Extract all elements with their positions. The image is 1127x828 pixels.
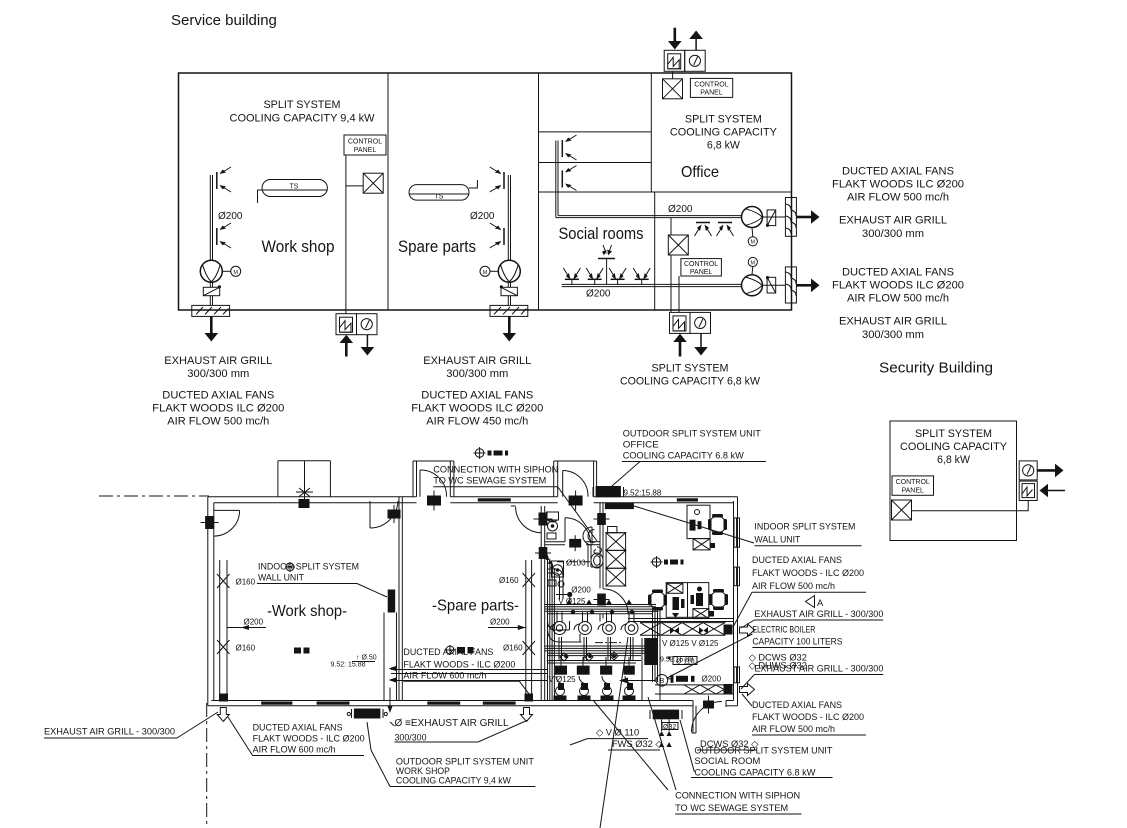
fan F1 workshop <box>200 260 240 282</box>
wire CP1 to outdoor unit <box>345 155 347 314</box>
svg-text:AIR FLOW 500 mc/h: AIR FLOW 500 mc/h <box>847 192 949 204</box>
desk1 office <box>687 505 710 538</box>
svg-text:300/300 mm: 300/300 mm <box>862 228 924 240</box>
desk2 office <box>666 583 687 618</box>
outlet V1 top <box>217 167 231 192</box>
svg-text:Ø200: Ø200 <box>702 675 722 684</box>
outlet V2 top <box>490 167 504 192</box>
duct X-braced upper <box>640 623 726 636</box>
WC upper fixtures <box>547 512 559 539</box>
label ducted fans spare mid <box>403 647 529 694</box>
svg-text:V Ø125: V Ø125 <box>549 675 577 684</box>
valve X duct spare b <box>523 641 536 655</box>
svg-text:Ø32: Ø32 <box>663 724 676 731</box>
pipe bundle B horizontal <box>545 646 648 656</box>
desk3 xbox <box>693 609 714 619</box>
svg-text:M: M <box>751 260 756 266</box>
indoor unit X4 security <box>892 500 912 520</box>
wall office left <box>650 73 652 192</box>
valve bowtie b <box>699 627 708 634</box>
shower stems <box>561 657 629 666</box>
hollow arrow workshop grill <box>217 708 229 722</box>
arrow out security <box>1037 464 1063 478</box>
triangles drain <box>659 719 672 747</box>
valve X duct spare a <box>523 573 536 587</box>
svg-text:Spare parts: Spare parts <box>398 237 476 256</box>
svg-text:Ø200: Ø200 <box>218 211 243 222</box>
refrigerant lines workshop <box>384 613 548 714</box>
wall social/office bottom <box>539 191 792 193</box>
svg-text:DUCTED AXIAL FANS: DUCTED AXIAL FANS <box>253 722 343 733</box>
svg-text:TS: TS <box>290 184 299 191</box>
svg-text:FLAKT WOODS ILC Ø200: FLAKT WOODS ILC Ø200 <box>832 179 964 191</box>
label ducted fans right plan 1 <box>733 555 866 627</box>
svg-text:EXHAUST AIR GRILL - 300/300: EXHAUST AIR GRILL - 300/300 <box>754 663 883 674</box>
svg-text:-Spare parts-: -Spare parts- <box>432 598 519 615</box>
wire X2 up to outdoor unit <box>672 72 674 79</box>
svg-text:TS: TS <box>435 194 444 201</box>
wall WC cubicle horizontal <box>591 566 600 568</box>
control panel CP4 <box>892 476 934 495</box>
svg-text:TO WC SEWAGE SYSTEM: TO WC SEWAGE SYSTEM <box>433 476 546 487</box>
diffuser H1 b <box>717 223 734 237</box>
outdoor unit OU1 office top <box>664 50 705 71</box>
arrow into OU3 <box>673 334 687 357</box>
duct V3 social <box>556 141 558 218</box>
svg-text:SOCIAL ROOM: SOCIAL ROOM <box>694 756 760 767</box>
vestibule office top <box>554 461 597 497</box>
svg-text:FLAKT WOODS - ILC Ø200: FLAKT WOODS - ILC Ø200 <box>752 568 864 579</box>
svg-text:-Work shop-: -Work shop- <box>267 603 347 620</box>
arrow into security <box>1040 484 1066 498</box>
svg-text:DUCTED AXIAL FANS: DUCTED AXIAL FANS <box>403 647 493 658</box>
svg-text:WALL UNIT: WALL UNIT <box>258 573 304 584</box>
arrow out of OU3 <box>694 333 708 355</box>
duct line through fan F4 <box>763 284 786 286</box>
valve X duct left a <box>217 574 230 588</box>
window right wall 2 <box>734 567 740 586</box>
washbasin WC <box>591 553 603 568</box>
svg-text:FLAKT WOODS - ILC Ø200: FLAKT WOODS - ILC Ø200 <box>403 659 515 670</box>
d200 label WC <box>556 585 591 604</box>
washbasin row <box>554 683 636 701</box>
arrow AR3 out right <box>796 210 819 224</box>
wall divider spare/mech <box>540 506 542 701</box>
door handle office bottom left <box>594 594 610 606</box>
svg-text:PANEL: PANEL <box>690 269 713 276</box>
wall WC cubicle vertical <box>587 545 589 567</box>
wall office left <box>599 503 601 589</box>
riser pipes left <box>546 554 555 700</box>
hollow arrow lower right <box>740 684 755 696</box>
svg-text:Social rooms: Social rooms <box>559 224 644 243</box>
svg-text:EXHAUST AIR GRILL - 300/300: EXHAUST AIR GRILL - 300/300 <box>44 727 175 738</box>
door arc workshop top-right <box>370 501 398 528</box>
svg-text:B: B <box>660 678 665 685</box>
arrow below G2 <box>503 316 517 341</box>
label outdoor social <box>680 720 833 778</box>
hollow arrow upper right <box>740 624 755 636</box>
svg-text:CONNECTION WITH SIPHON: CONNECTION WITH SIPHON <box>433 465 558 476</box>
svg-text:9.52:15.88: 9.52:15.88 <box>624 488 662 497</box>
door handle social exit <box>703 696 714 714</box>
curved pipe connectors WC <box>583 527 595 545</box>
exhaust grill GR3 <box>785 198 796 237</box>
door handle WC wall <box>569 535 581 551</box>
door handle spare top <box>427 491 441 511</box>
svg-text:AIR FLOW 500 mc/h: AIR FLOW 500 mc/h <box>167 416 269 428</box>
wall small room divider 1 <box>539 131 652 133</box>
svg-text:COOLING CAPACITY 6.8 kW: COOLING CAPACITY 6.8 kW <box>623 451 744 462</box>
damper D4 <box>766 276 776 293</box>
svg-text:DUCTED AXIAL FANS: DUCTED AXIAL FANS <box>752 555 842 566</box>
door arc spare/mech corner <box>516 507 542 533</box>
svg-text:CONNECTION WITH SIPHON: CONNECTION WITH SIPHON <box>675 790 800 801</box>
outlet V1 bottom <box>217 223 231 248</box>
wire CP3 down <box>678 276 680 312</box>
svg-text:DUCTED AXIAL FANS: DUCTED AXIAL FANS <box>162 390 274 402</box>
label connection siphon top <box>433 465 597 542</box>
plan top wall <box>208 496 417 498</box>
fan F3 <box>742 207 763 246</box>
door arc office vestibule <box>563 471 588 497</box>
svg-text:FLAKT WOODS - ILC Ø200: FLAKT WOODS - ILC Ø200 <box>752 712 864 723</box>
outlet V3 top <box>562 135 576 160</box>
damper D2 <box>500 282 518 305</box>
marker bars spare <box>445 645 474 655</box>
svg-text:DUCTED AXIAL FANS: DUCTED AXIAL FANS <box>421 390 533 402</box>
outdoor unit security fan box <box>1019 461 1037 480</box>
plan left wall <box>207 497 209 706</box>
svg-text:EXHAUST AIR GRILL: EXHAUST AIR GRILL <box>839 215 947 227</box>
control panel CP2 <box>690 78 732 97</box>
leader to indoor label <box>634 506 754 543</box>
window right wall 1 <box>734 518 740 547</box>
arrow into OU2 <box>340 335 354 357</box>
svg-text:PANEL: PANEL <box>354 147 377 154</box>
TS capsule spare parts <box>409 180 477 201</box>
shower row black <box>555 666 635 675</box>
svg-text:CONTROL: CONTROL <box>348 139 382 146</box>
svg-text:Ø 110: Ø 110 <box>676 658 695 665</box>
svg-text:V Ø125 V Ø125: V Ø125 V Ø125 <box>662 639 719 648</box>
control panel CP3 <box>681 259 722 276</box>
damper D1 <box>203 282 221 305</box>
outlet V3 bottom <box>562 166 576 191</box>
duct V1 workshop <box>210 175 212 261</box>
door arc office interior <box>603 589 628 614</box>
svg-text:SPLIT SYSTEM: SPLIT SYSTEM <box>915 428 992 440</box>
window bottom wall w1 <box>261 702 292 705</box>
grill black upper right <box>724 625 733 635</box>
d110 boxed <box>667 656 698 665</box>
outdoor unit workshop black <box>347 709 387 719</box>
svg-text:COOLING CAPACITY 6.8 kW: COOLING CAPACITY 6.8 kW <box>694 767 815 778</box>
outdoor unit OU3 social bottom <box>670 312 711 333</box>
label fws <box>608 739 663 750</box>
svg-text:M: M <box>233 270 238 276</box>
svg-text:DUCTED AXIAL FANS: DUCTED AXIAL FANS <box>752 700 842 711</box>
svg-text:ELECTRIC BOILER: ELECTRIC BOILER <box>752 624 815 635</box>
grill black lower right <box>724 684 733 695</box>
chair1 office <box>708 514 727 535</box>
desk3 office <box>688 583 709 618</box>
arrow AR4 out right <box>796 279 819 293</box>
svg-text:INDOOR SPLIT SYSTEM: INDOOR SPLIT SYSTEM <box>258 562 359 573</box>
svg-text:CONTROL: CONTROL <box>896 479 930 486</box>
grill square spare bottom <box>525 694 534 702</box>
grill square workshop bottom <box>219 694 228 702</box>
svg-text:EXHAUST AIR GRILL: EXHAUST AIR GRILL <box>164 355 272 367</box>
desk1 xbox <box>693 539 715 550</box>
door arc workshop top-left <box>214 509 240 511</box>
wire duct to X3 <box>670 218 672 235</box>
svg-text:Ø200: Ø200 <box>244 618 264 627</box>
TS capsule workshop <box>258 180 328 204</box>
wire X3 down <box>670 255 672 312</box>
duct H1 social upper <box>556 216 742 218</box>
indoor unit X2 office <box>663 79 683 99</box>
d100 dashed leader <box>557 558 591 567</box>
label d200 workshop <box>227 618 266 631</box>
duct workshop left <box>220 560 227 697</box>
toilets row <box>553 618 566 635</box>
door arc spare vestibule <box>420 470 447 497</box>
arrow into OU1 <box>668 28 682 50</box>
svg-text:COOLING CAPACITY: COOLING CAPACITY <box>900 441 1008 453</box>
svg-text:Ø160: Ø160 <box>236 644 256 653</box>
svg-text:M: M <box>751 240 756 246</box>
svg-text:M: M <box>483 270 488 276</box>
center diffuser H2 <box>598 245 615 284</box>
centerline vertical <box>206 703 208 828</box>
ceiling marker office <box>651 556 684 568</box>
outlet V2 bottom <box>490 223 504 248</box>
svg-text:Ø200: Ø200 <box>586 289 611 300</box>
svg-text:OUTDOOR SPLIT SYSTEM UNIT: OUTDOOR SPLIT SYSTEM UNIT <box>623 429 761 440</box>
window bottom wall w2 <box>317 702 350 705</box>
indoor unit X3 social <box>668 235 688 255</box>
door handle office top <box>569 491 583 511</box>
building outline top schematic <box>179 73 792 310</box>
wall WC divider horizontal <box>545 541 565 543</box>
window W1 top wall <box>478 498 511 501</box>
exhaust grill GR4 <box>785 267 796 303</box>
pipe bundle A horizontal <box>545 605 659 614</box>
svg-text:AIR FLOW 450 mc/h: AIR FLOW 450 mc/h <box>426 416 528 428</box>
svg-text:FLAKT WOODS ILC Ø200: FLAKT WOODS ILC Ø200 <box>152 403 284 415</box>
chair2 office <box>648 590 667 611</box>
label exhaust grill plan 2 <box>741 663 883 689</box>
svg-text:300/300 mm: 300/300 mm <box>187 368 249 380</box>
plan right wall <box>737 497 739 706</box>
wall office bottom <box>628 618 734 620</box>
label ducted fans plan left <box>228 717 365 756</box>
canopy protrusion workshop top <box>278 461 331 508</box>
svg-text:CAPACITY 100 LITERS: CAPACITY 100 LITERS <box>752 636 842 647</box>
fan F4 <box>742 257 763 295</box>
fan F2 spare parts <box>480 260 520 282</box>
label outdoor unit office <box>612 429 766 487</box>
label outdoor workshop <box>367 722 535 787</box>
svg-text:AIR FLOW 500 mc/h: AIR FLOW 500 mc/h <box>752 724 835 735</box>
svg-text:COOLING CAPACITY 9,4 kW: COOLING CAPACITY 9,4 kW <box>230 113 376 125</box>
svg-text:Office: Office <box>681 164 719 181</box>
exhaust grill G2 <box>490 305 528 316</box>
plan bottom wall <box>208 705 693 707</box>
section marker A <box>806 596 825 609</box>
svg-text:SPLIT SYSTEM: SPLIT SYSTEM <box>652 363 729 375</box>
indoor wall unit workshop black <box>388 590 396 613</box>
svg-text:Ø160: Ø160 <box>503 644 523 653</box>
svg-text:INDOOR SPLIT SYSTEM: INDOOR SPLIT SYSTEM <box>754 522 855 533</box>
arrow out of OU1 <box>689 31 703 51</box>
svg-text:PANEL: PANEL <box>700 90 723 97</box>
door handle workshop top-right <box>388 505 401 523</box>
svg-text:FLAKT WOODS - ILC Ø200: FLAKT WOODS - ILC Ø200 <box>253 733 365 744</box>
valve bowtie a <box>670 627 679 634</box>
duct lower rails <box>655 685 734 694</box>
svg-text:FLAKT WOODS ILC Ø200: FLAKT WOODS ILC Ø200 <box>411 403 543 415</box>
door handle workshop left <box>201 516 219 529</box>
wall social corridor <box>654 192 656 310</box>
diffuser H1 a <box>695 223 712 237</box>
svg-text:Ø ≡EXHAUST AIR GRILL: Ø ≡EXHAUST AIR GRILL <box>395 718 509 729</box>
svg-text:TO WC SEWAGE SYSTEM: TO WC SEWAGE SYSTEM <box>675 803 788 814</box>
svg-text:COOLING CAPACITY 6,8 kW: COOLING CAPACITY 6,8 kW <box>620 376 761 388</box>
svg-text:Ø200: Ø200 <box>668 204 693 215</box>
duct spare right <box>526 560 532 697</box>
svg-text:A: A <box>817 598 824 608</box>
wire stub to X1 <box>346 185 363 187</box>
wall workshop/spare parts <box>387 73 389 310</box>
security building box <box>890 421 1017 541</box>
label exhaust grill plan 1 <box>741 609 883 628</box>
svg-text:EXHAUST AIR GRILL: EXHAUST AIR GRILL <box>423 355 531 367</box>
svg-text:Ø100: Ø100 <box>566 558 586 567</box>
svg-text:6,8 kW: 6,8 kW <box>707 140 741 152</box>
svg-text:CONTROL: CONTROL <box>684 261 718 268</box>
door handle mech left wall <box>535 547 551 559</box>
wire X4 to outdoor unit security <box>912 501 1029 511</box>
svg-text:PANEL: PANEL <box>901 487 924 494</box>
arrow below G1 <box>205 316 219 341</box>
d32 box social <box>662 723 678 731</box>
svg-text:WALL UNIT: WALL UNIT <box>754 535 800 546</box>
level marker workshop text <box>285 562 295 572</box>
duct H2 social lower <box>562 284 742 286</box>
svg-text:AIR FLOW 500 mc/h: AIR FLOW 500 mc/h <box>752 581 835 592</box>
svg-text:OUTDOOR SPLIT SYSTEM UNIT: OUTDOOR SPLIT SYSTEM UNIT <box>694 745 832 756</box>
siphon S symbol <box>594 547 602 555</box>
svg-text:↑ Ø.50: ↑ Ø.50 <box>356 655 377 662</box>
label exhaust air grill mid <box>390 718 528 744</box>
label v110 <box>570 727 648 745</box>
label dcws <box>749 652 807 670</box>
black riser blob <box>642 610 660 700</box>
chair3 office <box>709 589 728 610</box>
boiler B <box>656 675 668 687</box>
door handle office left wall <box>594 513 610 525</box>
svg-text:Ø200: Ø200 <box>470 211 495 222</box>
svg-text:DUCTED AXIAL FANS: DUCTED AXIAL FANS <box>842 166 954 178</box>
wall spare/social <box>538 73 540 310</box>
label indoor split workshop <box>257 562 387 598</box>
marker bars workshop <box>294 648 310 654</box>
svg-text:EXHAUST AIR GRILL: EXHAUST AIR GRILL <box>839 316 947 328</box>
label ducted fans right plan 2 <box>742 694 866 735</box>
svg-text:6,8 kW: 6,8 kW <box>937 454 971 466</box>
svg-text:AIR FLOW 500 mc/h: AIR FLOW 500 mc/h <box>847 293 949 305</box>
svg-text:EXHAUST AIR GRILL - 300/300: EXHAUST AIR GRILL - 300/300 <box>754 609 883 620</box>
svg-text:Ø200: Ø200 <box>571 585 591 594</box>
svg-text:FWS Ø32 ◇: FWS Ø32 ◇ <box>612 739 663 749</box>
svg-text:300/300 mm: 300/300 mm <box>446 368 508 380</box>
hollow arrow spare grill <box>521 708 533 722</box>
toilet supply pipes <box>557 612 634 620</box>
boiler connection bars <box>619 675 695 684</box>
svg-text:OFFICE: OFFICE <box>623 440 659 451</box>
valve X duct left b <box>217 640 230 654</box>
wall small room divider 2 <box>539 162 652 164</box>
wall divider workshop/spare <box>398 497 400 701</box>
arrow out of OU2 <box>361 335 375 356</box>
social exit door bottom <box>692 701 727 734</box>
svg-text:Ø160: Ø160 <box>236 578 256 587</box>
duct V2 spare parts <box>508 175 510 261</box>
svg-text:9.52: 15.88: 9.52: 15.88 <box>331 662 366 669</box>
tall X panel <box>606 527 626 587</box>
svg-text:300/300 mm: 300/300 mm <box>862 329 924 341</box>
svg-text:Work shop: Work shop <box>262 237 335 256</box>
damper D3 <box>766 210 776 227</box>
svg-text:AIR FLOW 600 mc/h: AIR FLOW 600 mc/h <box>253 744 336 755</box>
centerline horizontal <box>99 495 209 497</box>
control panel CP1 <box>344 135 386 155</box>
exhaust grill G1 <box>192 305 230 316</box>
svg-text:COOLING CAPACITY 9,4 kW: COOLING CAPACITY 9,4 kW <box>396 776 511 787</box>
duct line through fan F3 <box>763 216 786 218</box>
level marker top <box>474 447 509 459</box>
svg-text:COOLING CAPACITY: COOLING CAPACITY <box>670 127 778 139</box>
svg-text:AIR FLOW 600 mc/h: AIR FLOW 600 mc/h <box>403 670 486 681</box>
outdoor unit OU2 workshop bottom <box>336 314 377 335</box>
svg-text:Service building: Service building <box>171 12 277 29</box>
svg-text:CONTROL: CONTROL <box>694 82 728 89</box>
label connection siphon bottom <box>675 790 801 814</box>
label electric boiler <box>667 624 842 678</box>
dash-dot pipe line <box>595 642 622 644</box>
outdoor unit security zigzag box <box>1019 481 1037 500</box>
indoor unit office black <box>605 503 634 509</box>
vestibule spare top <box>413 461 454 497</box>
WC lower fixtures <box>548 561 564 587</box>
leader siphon lines <box>593 637 676 828</box>
extra pipes mech <box>547 624 641 663</box>
window bottom wall w4 <box>483 702 516 705</box>
diffusers H2 row <box>563 268 650 284</box>
svg-text:DUCTED AXIAL FANS: DUCTED AXIAL FANS <box>842 267 954 279</box>
door arc WC <box>565 518 591 544</box>
svg-text:Ø160: Ø160 <box>499 576 519 585</box>
label exhaust grill left plan <box>44 712 218 738</box>
outdoor unit office black <box>593 486 624 497</box>
svg-text:◇ V Ø 110: ◇ V Ø 110 <box>596 727 639 737</box>
indoor unit X1 workshop <box>363 173 383 193</box>
svg-text:Ø200: Ø200 <box>490 618 510 627</box>
window right wall 3 <box>734 667 740 683</box>
mech interior pipes scatter <box>547 569 634 661</box>
